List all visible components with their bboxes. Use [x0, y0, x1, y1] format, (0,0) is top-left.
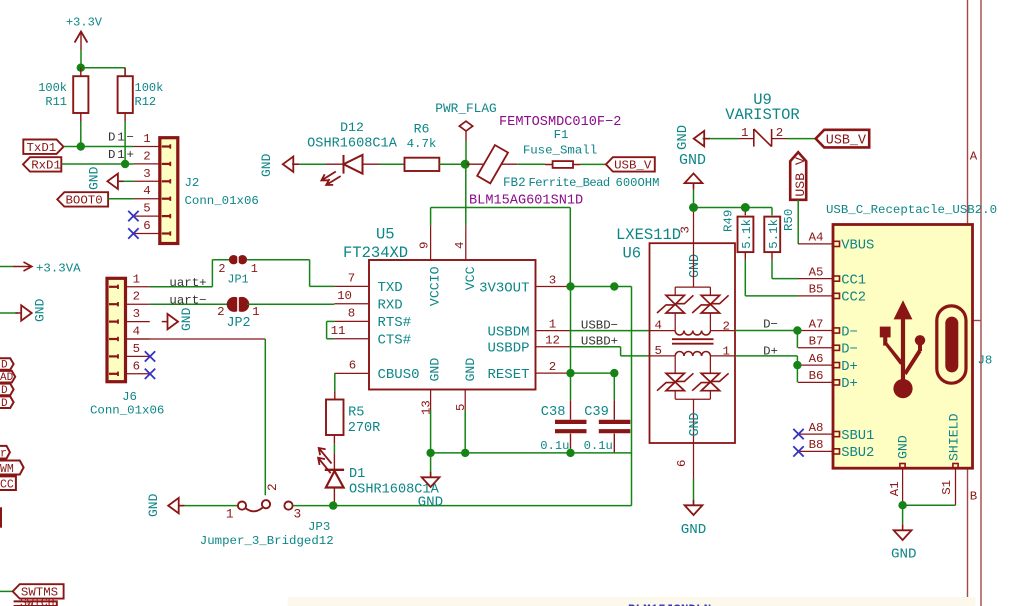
wire RTS CTS loop: [327, 321, 335, 338]
no-connect J2 pin5: [128, 211, 138, 221]
wire F1 to USB_V: [580, 163, 606, 165]
svg-text:A5: A5: [809, 265, 824, 279]
svg-text:USBDP: USBDP: [487, 341, 529, 357]
no-connect J6 pin5: [145, 351, 155, 361]
svg-text:VCC: VCC: [463, 266, 478, 290]
power flag PWR_FLAG: [435, 101, 496, 164]
svg-text:B6: B6: [809, 369, 824, 383]
bottom band: [288, 597, 976, 606]
svg-text:5: 5: [655, 344, 662, 358]
junction D+: [793, 361, 801, 369]
svg-text:D−: D−: [841, 343, 858, 358]
svg-text:600OHM: 600OHM: [616, 176, 660, 190]
svg-text:A4: A4: [809, 231, 824, 245]
global label TxD1: [23, 140, 63, 155]
varistor U9: [725, 91, 799, 147]
cut global label WM: [0, 461, 24, 476]
cut global label SWTCK: [14, 597, 57, 606]
svg-text:Conn_01x06: Conn_01x06: [185, 194, 259, 208]
no-connect SBU1: [793, 429, 803, 439]
svg-text:r: r: [0, 447, 7, 460]
svg-text:B7: B7: [809, 335, 824, 349]
svg-text:C39: C39: [584, 405, 609, 420]
ic U6 box: [616, 226, 735, 443]
svg-text:D−: D−: [841, 325, 858, 340]
global label SWTMS: [0, 584, 64, 599]
svg-text:uart+: uart+: [169, 276, 206, 290]
svg-text:3: 3: [143, 167, 150, 181]
svg-text:CC: CC: [0, 478, 14, 491]
svg-text:3: 3: [679, 226, 693, 233]
cut global label r: [0, 446, 10, 461]
svg-text:B8: B8: [809, 438, 824, 452]
svg-text:10: 10: [337, 289, 352, 303]
svg-text:B: B: [970, 490, 977, 504]
wire J8 shield pin: [903, 468, 956, 505]
connector J2: [134, 132, 259, 244]
svg-text:100k: 100k: [38, 81, 67, 95]
wire gnd rail R49 R50: [694, 208, 773, 216]
svg-text:D1−: D1−: [108, 131, 136, 145]
wire +3.3V to R12: [81, 68, 125, 77]
svg-text:A7: A7: [809, 317, 824, 331]
resistor R11: [38, 68, 88, 122]
svg-text:JP3: JP3: [308, 520, 330, 534]
svg-text:270R: 270R: [348, 421, 381, 436]
svg-text:D12: D12: [340, 120, 364, 135]
svg-text:5: 5: [133, 342, 140, 356]
svg-text:GND: GND: [688, 254, 703, 278]
svg-text:R5: R5: [348, 405, 364, 420]
svg-text:J8: J8: [978, 354, 993, 368]
svg-text:1: 1: [226, 507, 234, 522]
resistor R12: [118, 68, 164, 122]
svg-text:Jumper_3_Bridged12: Jumper_3_Bridged12: [200, 534, 334, 548]
svg-text:USB_V: USB_V: [793, 157, 808, 197]
global label USB_V at U9: [816, 130, 870, 149]
svg-text:4: 4: [453, 242, 467, 249]
wire JP3 pin3 rail: [293, 505, 632, 507]
junction +3.3V: [77, 63, 85, 71]
svg-text:9: 9: [418, 242, 432, 249]
junction gnd 5: [461, 449, 469, 457]
svg-text:4: 4: [143, 184, 150, 198]
svg-text:GND: GND: [463, 358, 478, 382]
ground left of U9: [675, 125, 739, 150]
net label D1+: [108, 148, 136, 162]
svg-text:2: 2: [265, 483, 280, 491]
choke U6 core: [672, 339, 714, 344]
svg-text:5.1k: 5.1k: [740, 219, 754, 249]
svg-text:TxD1: TxD1: [27, 141, 57, 155]
svg-text:JP1: JP1: [227, 273, 248, 287]
resistor R6: [405, 121, 440, 171]
wire VCCIO VCC 3V3 loop: [431, 164, 571, 286]
label USB_C_Receptacle: [826, 203, 997, 217]
junction gnd c38: [566, 449, 574, 457]
svg-text:6: 6: [349, 359, 356, 373]
svg-text:CC2: CC2: [841, 291, 866, 306]
junction gnd u6: [689, 203, 698, 212]
svg-text:12: 12: [545, 334, 560, 348]
net label D1-: [108, 131, 136, 145]
svg-text:GND: GND: [179, 307, 194, 331]
junction gnd r49: [741, 203, 750, 212]
led D1: [318, 448, 439, 506]
svg-text:D1+: D1+: [108, 148, 136, 162]
ic U5 left pins: [331, 272, 420, 384]
ground at J6 pin3: [162, 307, 194, 331]
svg-text:D+: D+: [841, 377, 858, 392]
svg-text:5: 5: [454, 404, 468, 411]
wire J6p1 to JP1: [150, 260, 229, 287]
net label uart-: [169, 293, 206, 307]
svg-text:FB2: FB2: [503, 176, 526, 190]
wire USBDM: [570, 330, 649, 332]
wire J8 GND pin: [888, 468, 903, 505]
svg-text:GND: GND: [896, 435, 911, 459]
global label BOOT0: [57, 192, 133, 207]
ic U5 top pins: [418, 225, 479, 306]
svg-text:CTS#: CTS#: [378, 333, 412, 349]
svg-text:GND: GND: [675, 125, 691, 150]
svg-text:R11: R11: [45, 95, 67, 109]
svg-text:FT234XD: FT234XD: [343, 244, 408, 262]
global label USB_V vertical: [790, 152, 808, 200]
ground stub left: [0, 298, 48, 322]
svg-text:0.1u: 0.1u: [540, 439, 569, 453]
svg-text:GND: GND: [891, 547, 917, 563]
cut global label 3: [0, 384, 14, 397]
label FEMTOSMDC010F-2: [499, 115, 621, 130]
svg-text:Fuse_Small: Fuse_Small: [523, 144, 597, 158]
junction D1 bottom: [329, 501, 337, 509]
svg-text:VBUS: VBUS: [841, 239, 874, 254]
usb-c symbol: [937, 306, 966, 383]
cut global label 1: [0, 358, 14, 371]
no-connect SBU2: [793, 446, 803, 456]
wire TxD1 to J2 pin1: [64, 146, 134, 148]
ground below U5: [418, 467, 444, 511]
svg-text:R12: R12: [135, 95, 157, 109]
wire FB2 to F1: [517, 163, 545, 165]
svg-text:RESET: RESET: [487, 367, 529, 383]
net label uart+: [169, 276, 206, 290]
svg-text:A1: A1: [888, 481, 902, 496]
sheet frame: [968, 0, 982, 606]
svg-text:D: D: [1, 360, 8, 372]
svg-text:GND: GND: [33, 298, 48, 322]
svg-text:A6: A6: [809, 352, 824, 366]
usb logo: [880, 300, 925, 398]
svg-text:J2: J2: [185, 176, 200, 190]
svg-text:GND: GND: [87, 166, 102, 190]
svg-text:2: 2: [549, 360, 556, 374]
svg-text:AD: AD: [0, 372, 14, 384]
wire R49 to CC2: [745, 252, 798, 296]
junction D-: [793, 326, 801, 334]
wire D+ A6: [735, 356, 797, 383]
wire R5 to D1: [333, 435, 335, 453]
svg-text:U6: U6: [623, 245, 642, 263]
net label D-: [763, 317, 778, 331]
svg-text:B5: B5: [809, 283, 824, 297]
svg-text:USB_V: USB_V: [826, 133, 866, 148]
ground left of D12: [259, 153, 326, 177]
svg-text:CC1: CC1: [841, 273, 866, 288]
svg-text:GND: GND: [418, 495, 444, 511]
svg-text:RxD1: RxD1: [31, 159, 61, 173]
svg-text:0.1u: 0.1u: [584, 439, 613, 453]
wire RESET row: [570, 372, 614, 374]
svg-text:F1: F1: [554, 128, 569, 142]
svg-text:USBD+: USBD+: [581, 335, 618, 349]
svg-text:VCCIO: VCCIO: [428, 266, 443, 306]
svg-text:PWR_FLAG: PWR_FLAG: [435, 101, 496, 116]
resistor R49: [722, 210, 755, 252]
svg-text:+3.3VA: +3.3VA: [36, 262, 81, 276]
junction gnd 13: [426, 449, 434, 457]
wire U9 to USB_V: [787, 138, 816, 140]
resistor R5: [326, 400, 380, 437]
svg-text:SHIELD: SHIELD: [947, 413, 962, 461]
wire R12 to RxD1 net: [124, 122, 126, 165]
svg-text:6: 6: [675, 460, 689, 467]
svg-text:USBD−: USBD−: [581, 318, 618, 332]
wire 3V3 down right: [631, 287, 633, 506]
svg-text:D: D: [1, 385, 8, 397]
jumper JP1: [218, 255, 257, 287]
ic U5 FT234XD box: [343, 226, 536, 390]
svg-text:+3.3V: +3.3V: [66, 16, 103, 30]
tvs diodes U6 top: [657, 243, 729, 330]
svg-text:2: 2: [723, 319, 730, 333]
svg-text:1: 1: [741, 126, 748, 140]
no-connect J6 pin6: [145, 369, 155, 379]
junction TxD1/R11: [77, 142, 85, 150]
choke U6 bottom winding: [650, 344, 736, 359]
svg-text:SWTCH: SWTCH: [20, 597, 55, 606]
svg-text:A: A: [970, 150, 978, 164]
ic U6 pin3: [679, 208, 704, 279]
svg-text:100k: 100k: [135, 81, 164, 95]
svg-text:3: 3: [133, 307, 140, 321]
capacitor C38: [540, 287, 586, 453]
ground above U6: [679, 152, 706, 208]
junction 3V3 c38: [566, 282, 574, 290]
tvs diodes U6 bottom: [657, 356, 729, 443]
svg-text:6: 6: [143, 219, 150, 233]
wire junction to FB2: [466, 163, 517, 165]
wire J6 pin4 to JP3 pin2: [126, 339, 266, 495]
svg-text:D1: D1: [349, 467, 365, 482]
svg-text:GND: GND: [146, 493, 161, 517]
svg-text:R6: R6: [414, 121, 430, 136]
junction 3V3 c39: [610, 282, 618, 290]
jumper JP3: [200, 483, 334, 547]
svg-text:3: 3: [294, 507, 302, 522]
svg-text:2: 2: [143, 149, 150, 163]
wire gnd5 down: [464, 410, 466, 453]
svg-text:JP2: JP2: [226, 316, 250, 331]
svg-text:D: D: [1, 398, 8, 410]
svg-text:SBU2: SBU2: [841, 446, 874, 461]
cut global label 4: [0, 396, 14, 409]
svg-text:BOOT0: BOOT0: [66, 194, 103, 208]
svg-text:U5: U5: [376, 226, 395, 244]
wire JP2 to U5 RXD: [247, 303, 334, 305]
svg-text:5: 5: [143, 202, 150, 216]
svg-text:GND: GND: [679, 152, 706, 169]
wire USB_V to VBUS: [797, 200, 799, 244]
ic U5 right pins: [479, 273, 570, 383]
svg-text:Ferrite_Bead: Ferrite_Bead: [529, 176, 610, 190]
svg-text:GND: GND: [259, 153, 274, 177]
net label USBD-: [581, 318, 618, 332]
wire USBDP: [570, 347, 649, 356]
wire R6 to junction: [439, 163, 465, 165]
ic U6 pin6: [675, 443, 694, 505]
svg-text:1: 1: [549, 317, 556, 331]
svg-text:D−: D−: [763, 317, 778, 331]
ground below U6: [681, 500, 707, 538]
choke U6 top winding: [650, 319, 736, 336]
svg-text:GND: GND: [681, 522, 707, 538]
no-connect J2 pin6: [128, 228, 138, 238]
svg-text:J6: J6: [122, 390, 137, 404]
cut global label 2: [0, 371, 15, 384]
svg-text:CBUS0: CBUS0: [378, 367, 420, 383]
svg-text:LXES11D: LXES11D: [616, 226, 681, 244]
svg-text:7: 7: [348, 272, 355, 286]
svg-text:3V3OUT: 3V3OUT: [479, 280, 529, 296]
ic U5 bottom pins: [420, 358, 479, 415]
junction reset c39: [610, 369, 618, 377]
net label D+: [763, 344, 778, 358]
svg-text:OSHR1608C1A: OSHR1608C1A: [307, 137, 398, 152]
svg-text:4: 4: [655, 319, 662, 333]
svg-text:D+: D+: [841, 360, 858, 375]
global label RxD1: [23, 157, 61, 172]
svg-text:BLM15AG601SN1D: BLM15AG601SN1D: [469, 193, 583, 208]
svg-text:1: 1: [133, 272, 140, 286]
svg-text:S1: S1: [940, 480, 954, 495]
svg-text:2: 2: [217, 305, 224, 319]
svg-text:1: 1: [251, 262, 258, 276]
junction main 3V3: [461, 160, 470, 169]
power +3.3VA stub: [0, 262, 81, 276]
junction J8 gnd: [898, 501, 906, 509]
svg-text:RXD: RXD: [378, 298, 403, 314]
svg-text:4.7k: 4.7k: [407, 137, 437, 151]
label BLM15AG601SN1D: [469, 193, 583, 208]
svg-text:GND: GND: [688, 412, 703, 436]
svg-text:6: 6: [133, 359, 140, 373]
jumper JP2: [217, 295, 259, 331]
svg-text:VARISTOR: VARISTOR: [725, 106, 799, 124]
svg-text:2: 2: [133, 290, 140, 304]
wire R11 to TxD1 net: [80, 122, 82, 147]
ground below J8: [891, 505, 917, 562]
wire J6p2 to JP2: [150, 303, 229, 305]
svg-text:SBU1: SBU1: [841, 429, 874, 444]
power +3.3V: [66, 16, 103, 68]
svg-text:GND: GND: [428, 358, 443, 382]
svg-text:5.1k: 5.1k: [767, 219, 781, 249]
cut global label CC: [0, 476, 16, 491]
svg-text:2: 2: [776, 126, 783, 140]
global label USB_V right: [606, 157, 655, 172]
led D12: [307, 120, 398, 185]
wire CBUS0 to R5: [334, 373, 336, 399]
svg-text:D+: D+: [763, 344, 778, 358]
capacitor C39: [584, 373, 631, 453]
svg-text:R49: R49: [722, 210, 736, 232]
svg-text:R50: R50: [782, 209, 796, 231]
svg-text:1: 1: [143, 132, 150, 146]
fuse F1: [523, 128, 597, 168]
resistor R50: [764, 209, 796, 252]
svg-text:WM: WM: [0, 463, 14, 476]
svg-text:uart−: uart−: [169, 293, 206, 307]
wire R50 to CC1: [772, 252, 798, 279]
svg-text:8: 8: [348, 307, 355, 321]
svg-text:1: 1: [252, 305, 259, 319]
wire D12 to R6: [380, 163, 405, 165]
wire gnd13 down: [430, 410, 432, 467]
wire RxD1 to J2 pin2: [61, 163, 133, 165]
svg-text:RTS#: RTS#: [378, 315, 412, 331]
svg-text:USB_C_Receptacle_USB2.0: USB_C_Receptacle_USB2.0: [826, 203, 997, 217]
ground at JP3: [146, 493, 238, 517]
cut label edge: [0, 507, 2, 527]
wire D- A7: [735, 331, 797, 348]
wire 3V3OUT row: [570, 286, 631, 288]
svg-text:2: 2: [218, 262, 225, 276]
svg-text:1: 1: [723, 345, 730, 359]
svg-text:13: 13: [420, 400, 434, 415]
svg-text:Conn_01x06: Conn_01x06: [90, 404, 164, 418]
ferrite bead FB2: [477, 145, 659, 190]
svg-text:C38: C38: [541, 405, 566, 420]
net label USBD+: [581, 335, 618, 349]
connector J8: [798, 225, 992, 469]
svg-text:4: 4: [133, 325, 140, 339]
svg-text:USB_V: USB_V: [614, 159, 652, 173]
svg-text:3: 3: [549, 273, 556, 287]
svg-text:TXD: TXD: [378, 280, 403, 296]
svg-text:A8: A8: [809, 421, 824, 435]
junction reset c38: [566, 369, 574, 377]
connector J6: [90, 272, 164, 417]
svg-text:USBDM: USBDM: [487, 324, 529, 340]
ground at J2 pin3: [87, 166, 134, 190]
wire GND rail U5: [431, 452, 632, 454]
svg-text:11: 11: [331, 324, 346, 338]
wire JP1 to U5 TXD: [247, 260, 334, 287]
junction RxD1/R12: [121, 160, 129, 168]
